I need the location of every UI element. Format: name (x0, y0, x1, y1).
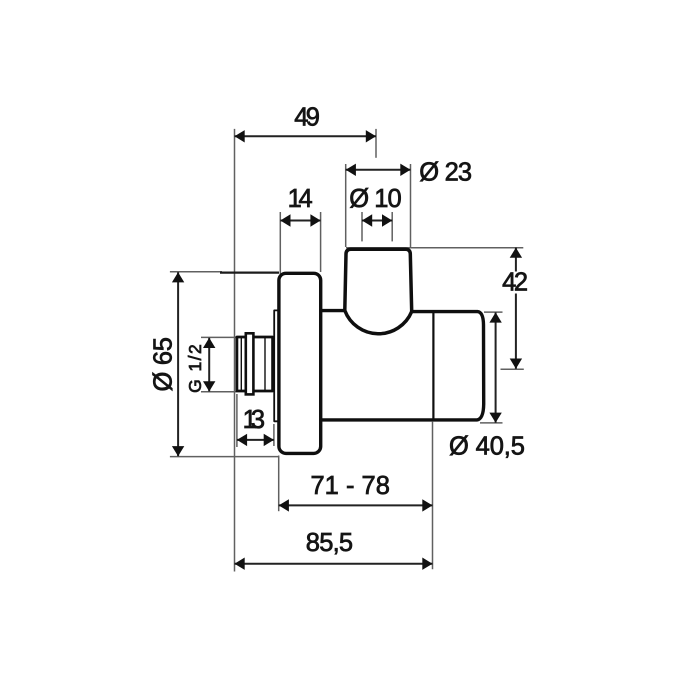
svg-text:Ø 40,5: Ø 40,5 (449, 432, 525, 460)
svg-text:85,5: 85,5 (306, 529, 353, 557)
svg-text:42: 42 (502, 268, 528, 296)
svg-text:49: 49 (294, 104, 320, 132)
svg-text:14: 14 (288, 185, 313, 213)
svg-text:Ø 23: Ø 23 (419, 158, 472, 186)
svg-text:Ø 10: Ø 10 (349, 185, 402, 213)
svg-text:G 1/2: G 1/2 (185, 344, 205, 393)
svg-text:71 - 78: 71 - 78 (311, 472, 390, 500)
svg-text:Ø 65: Ø 65 (150, 337, 178, 392)
svg-text:13: 13 (243, 406, 266, 434)
